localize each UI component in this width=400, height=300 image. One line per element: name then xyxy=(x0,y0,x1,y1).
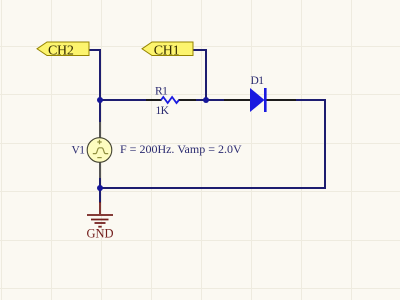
svg-text:F = 200Hz. Vamp = 2.0V: F = 200Hz. Vamp = 2.0V xyxy=(120,142,242,156)
svg-text:D1: D1 xyxy=(251,75,265,87)
svg-text:V1: V1 xyxy=(72,145,86,157)
svg-text:CH2: CH2 xyxy=(48,43,74,58)
svg-text:R1: R1 xyxy=(155,86,168,98)
svg-text:GND: GND xyxy=(86,227,113,241)
svg-text:1K: 1K xyxy=(156,105,170,117)
svg-text:CH1: CH1 xyxy=(154,43,180,58)
